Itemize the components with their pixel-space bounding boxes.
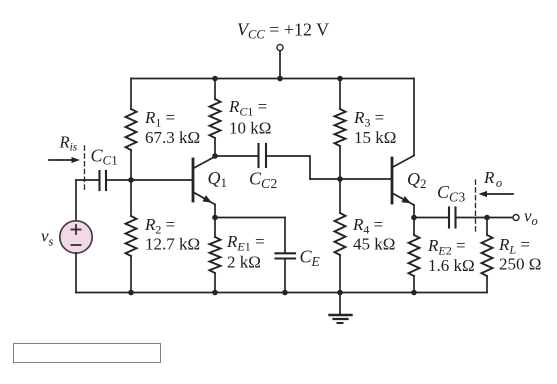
svg-text:CE: CE bbox=[300, 247, 321, 270]
svg-text:vo: vo bbox=[524, 207, 538, 229]
wire RL top bbox=[486, 218, 488, 236]
node emitter junction Q1 bbox=[212, 215, 218, 221]
node base divider junction Q2 bbox=[337, 176, 343, 182]
wire R4 to ground rail bbox=[339, 255, 341, 293]
node VCC terminal bbox=[277, 44, 283, 50]
svg-text:CC1: CC1 bbox=[91, 146, 118, 168]
transistor Q2 bbox=[392, 156, 414, 206]
wire emitter Q1 down bbox=[214, 205, 216, 218]
svg-text:67.3 kΩ: 67.3 kΩ bbox=[145, 128, 200, 147]
node bottom rail at RE2 bbox=[411, 290, 417, 296]
svg-text:CC3: CC3 bbox=[437, 182, 466, 205]
wire bottom ground rail bbox=[76, 292, 487, 294]
node bottom rail at R2 bbox=[128, 290, 134, 296]
ground bbox=[330, 293, 352, 324]
node emitter junction Q2 bbox=[411, 215, 417, 221]
svg-text:12.7 kΩ: 12.7 kΩ bbox=[145, 235, 200, 254]
svg-text:R4 =: R4 = bbox=[352, 215, 383, 237]
capacitor CE bbox=[276, 253, 296, 258]
resistor RC1 bbox=[210, 99, 221, 138]
svg-text:RE1 =: RE1 = bbox=[226, 232, 265, 254]
node junction top rail at VCC bbox=[277, 76, 283, 82]
node collector junction Q1 bbox=[212, 153, 218, 159]
resistor R2 bbox=[126, 216, 137, 256]
caption box bbox=[14, 344, 161, 363]
wire R3 to divider node bbox=[339, 146, 341, 179]
wire input impedance dashed marker bbox=[84, 146, 86, 192]
wire divider node to R4 bbox=[339, 179, 341, 213]
wire RL to ground rail bbox=[486, 276, 488, 293]
source vs bbox=[60, 221, 92, 253]
svg-text:RL =: RL = bbox=[498, 235, 530, 257]
wire source bottom bbox=[75, 253, 77, 293]
wire collector Q2 column bbox=[413, 79, 415, 156]
wire Ro arrow bbox=[479, 191, 514, 197]
wire top supply rail bbox=[131, 78, 414, 80]
resistor RE2 bbox=[409, 235, 420, 276]
svg-text:2 kΩ: 2 kΩ bbox=[227, 253, 261, 272]
node base divider junction Q1 bbox=[128, 177, 134, 183]
capacitor CC2 bbox=[259, 144, 267, 167]
wire left column upper bbox=[130, 79, 132, 110]
resistor R3 bbox=[335, 109, 346, 146]
svg-text:vs: vs bbox=[41, 227, 54, 249]
wire VCC stem bbox=[279, 51, 281, 79]
wire input to capacitor CC1 bbox=[76, 179, 100, 181]
wire emitter node to RE2 bbox=[413, 218, 415, 236]
svg-text:VCC = +12 V: VCC = +12 V bbox=[237, 20, 329, 42]
svg-text:R1 =: R1 = bbox=[144, 108, 175, 130]
wire CE top bbox=[284, 218, 286, 254]
wire R1 to base node bbox=[130, 150, 132, 180]
source vs plus sign bbox=[72, 225, 81, 234]
svg-text:RC1 =: RC1 = bbox=[228, 97, 267, 119]
svg-text:R2 =: R2 = bbox=[144, 215, 175, 237]
wire CC3 to output terminal bbox=[456, 217, 513, 219]
svg-text:CC2: CC2 bbox=[249, 169, 277, 192]
wire collector node to CC2 bbox=[215, 155, 259, 157]
source vs minus sign bbox=[72, 244, 81, 246]
svg-text:Q2: Q2 bbox=[407, 169, 427, 191]
wire step to base Q2 bbox=[310, 178, 391, 180]
node bottom rail at RE1 bbox=[212, 290, 218, 296]
wire emitter Q2 down bbox=[413, 205, 415, 218]
svg-text:15 kΩ: 15 kΩ bbox=[354, 128, 396, 147]
wire R2 to ground rail bbox=[130, 256, 132, 293]
node bottom rail at ground bbox=[337, 290, 343, 296]
svg-text:RE2 =: RE2 = bbox=[427, 236, 466, 258]
svg-text:250 Ω: 250 Ω bbox=[499, 255, 541, 274]
wire emitter node to CE bbox=[215, 217, 285, 219]
svg-text:10 kΩ: 10 kΩ bbox=[229, 119, 271, 138]
wire source top bbox=[75, 180, 77, 221]
transistor Q1 bbox=[193, 157, 215, 205]
wire base Q1 bbox=[131, 179, 192, 181]
capacitor CC3 bbox=[449, 208, 456, 228]
wire RC1 to collector node bbox=[214, 138, 216, 156]
wire output impedance dashed marker bbox=[475, 180, 477, 234]
node junction top rail at RC1 bbox=[212, 76, 218, 82]
node output junction RL bbox=[484, 215, 490, 221]
wire R3 column top bbox=[339, 79, 341, 110]
node junction top rail at R3 bbox=[337, 76, 343, 82]
svg-text:R3 =: R3 = bbox=[353, 108, 384, 130]
wire CC1 to base node bbox=[106, 179, 131, 181]
resistor RE1 bbox=[210, 237, 221, 273]
wire RE1 to ground rail bbox=[214, 273, 216, 293]
wire RC1 column top bbox=[214, 79, 216, 100]
resistor R4 bbox=[335, 213, 346, 255]
wire emitter node to CC3 bbox=[414, 217, 449, 219]
svg-text:Ris: Ris bbox=[59, 133, 78, 154]
wire Ris arrow bbox=[49, 157, 80, 163]
wire CC2 to step corner bbox=[266, 156, 310, 179]
node bottom rail at CE bbox=[282, 290, 288, 296]
svg-text:45 kΩ: 45 kΩ bbox=[353, 235, 395, 254]
svg-text:1.6 kΩ: 1.6 kΩ bbox=[428, 256, 475, 275]
capacitor CC1 bbox=[100, 171, 107, 190]
svg-text:Q1: Q1 bbox=[208, 168, 228, 190]
wire base node to R2 bbox=[130, 180, 132, 216]
wire emitter node to RE1 bbox=[214, 218, 216, 238]
wire RE2 to ground rail bbox=[413, 276, 415, 293]
svg-text:Ro: Ro bbox=[483, 168, 502, 190]
wire CE bottom bbox=[284, 259, 286, 293]
resistor RL bbox=[482, 235, 493, 276]
node output terminal vo bbox=[513, 215, 519, 221]
resistor R1 bbox=[126, 109, 137, 150]
